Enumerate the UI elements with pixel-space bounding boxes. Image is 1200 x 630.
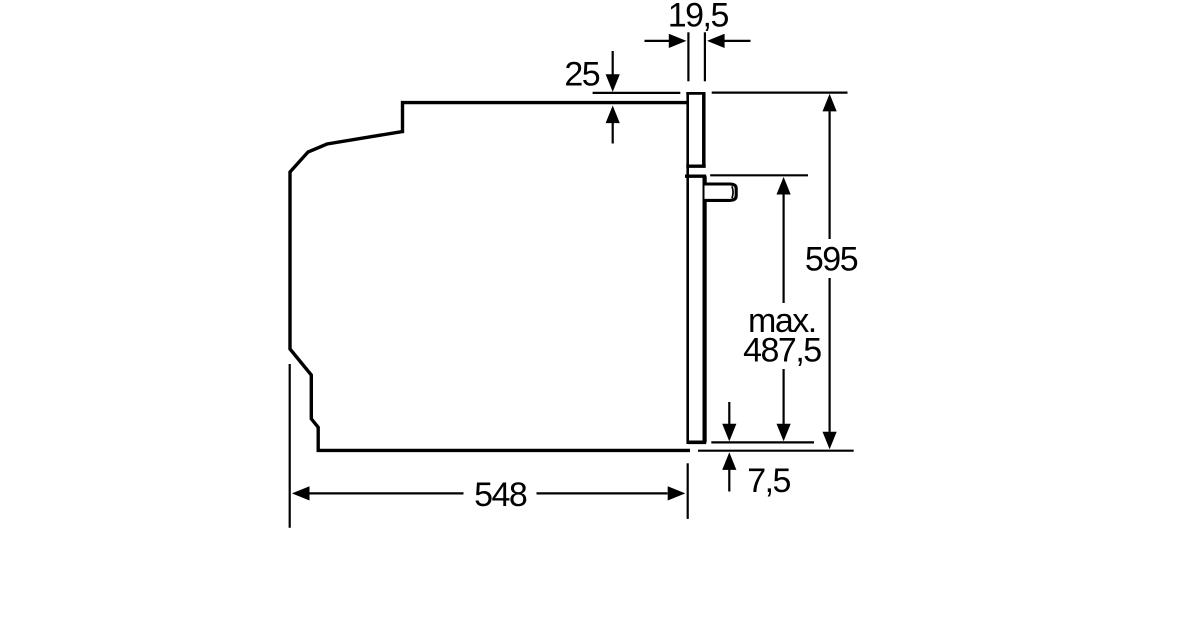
oven body outline xyxy=(290,103,690,451)
dimension 595 line with arrows xyxy=(823,94,837,450)
dimension 19,5 extension lines xyxy=(688,32,705,81)
oven door (lower panel section) xyxy=(685,176,706,442)
door bottom reference line xyxy=(711,441,814,443)
svg-text:25: 25 xyxy=(564,55,599,93)
dimension 19,5 label xyxy=(668,0,729,34)
dimension 25 extension line xyxy=(593,92,681,94)
dimension max 487,5 top reference line xyxy=(710,174,808,176)
dimension 548 extension lines xyxy=(290,364,688,528)
svg-text:487,5: 487,5 xyxy=(743,332,821,370)
door handle knob xyxy=(705,184,737,200)
svg-text:595: 595 xyxy=(805,241,858,279)
body bottom reference line xyxy=(698,450,854,452)
front fascia (upper panel section) xyxy=(686,93,705,166)
dimension 25 arrows xyxy=(606,51,620,144)
dimension 548 line with arrows xyxy=(292,486,685,500)
svg-text:7,5: 7,5 xyxy=(747,462,790,500)
svg-text:19,5: 19,5 xyxy=(668,0,729,34)
dimension 25 label xyxy=(564,55,599,93)
dimension 595 label xyxy=(805,241,858,279)
dimension max 487,5 line with arrows xyxy=(777,177,791,441)
dimension 7,5 label xyxy=(747,462,790,500)
dimension 595 top reference line xyxy=(712,91,848,93)
dimension 19,5 arrows xyxy=(645,34,751,48)
dimension 548 label xyxy=(474,476,527,514)
svg-text:548: 548 xyxy=(474,476,527,514)
dimension max 487,5 label xyxy=(743,302,821,370)
panel left edge (continuous) xyxy=(686,92,689,444)
dimension 7,5 arrows xyxy=(722,402,736,492)
